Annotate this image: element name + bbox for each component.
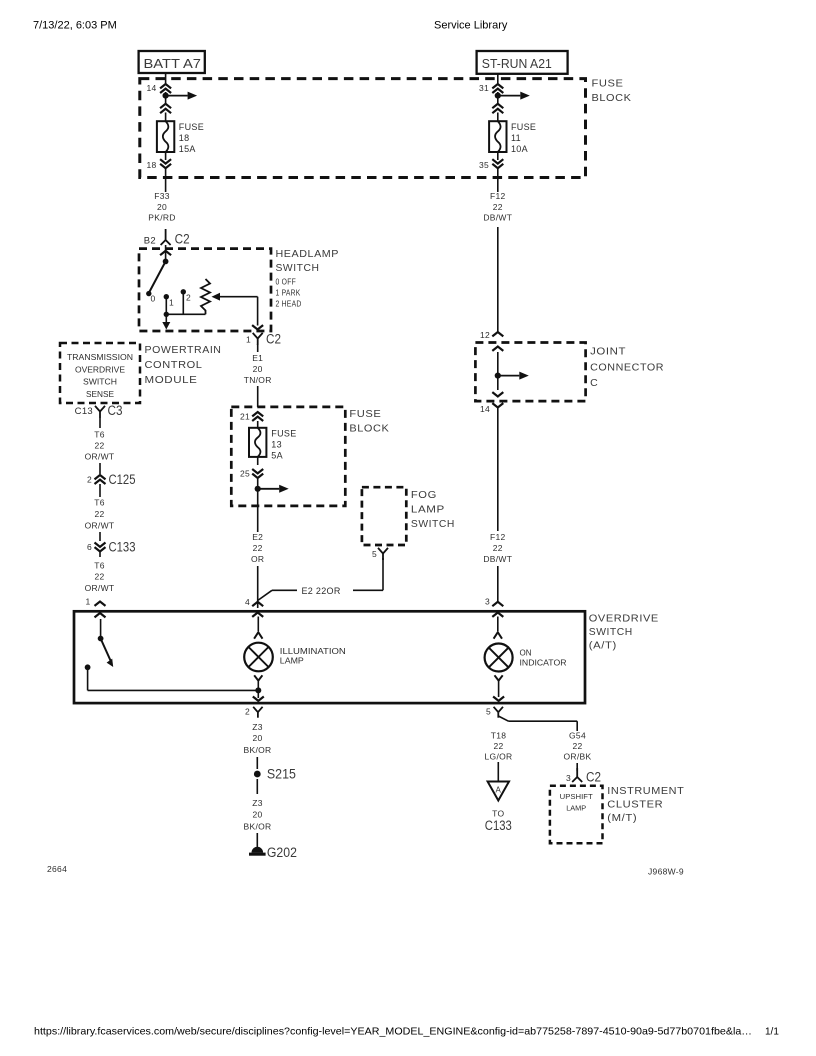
- svg-text:E2 22OR: E2 22OR: [302, 586, 341, 596]
- svg-text:FUSE: FUSE: [592, 78, 624, 90]
- svg-text:1: 1: [85, 597, 90, 607]
- svg-text:7/13/22, 6:03 PM: 7/13/22, 6:03 PM: [33, 20, 117, 32]
- svg-text:OR: OR: [251, 554, 264, 564]
- svg-text:MODULE: MODULE: [145, 374, 198, 386]
- svg-text:C125: C125: [109, 472, 136, 487]
- svg-text:1 PARK: 1 PARK: [276, 288, 301, 297]
- svg-text:OVERDRIVE: OVERDRIVE: [589, 613, 659, 625]
- svg-text:18: 18: [179, 133, 190, 143]
- svg-text:T6: T6: [94, 498, 105, 508]
- svg-text:FUSE: FUSE: [179, 122, 204, 132]
- svg-text:10A: 10A: [511, 144, 528, 154]
- svg-text:ON: ON: [520, 649, 532, 658]
- svg-text:J968W-9: J968W-9: [648, 867, 684, 877]
- svg-text:2: 2: [87, 475, 92, 485]
- svg-text:C2: C2: [175, 232, 190, 247]
- svg-text:G54: G54: [569, 730, 586, 740]
- svg-text:F12: F12: [490, 532, 506, 542]
- svg-text:22: 22: [94, 572, 104, 582]
- svg-text:C3: C3: [108, 403, 123, 418]
- svg-text:C: C: [590, 377, 598, 389]
- svg-text:31: 31: [479, 83, 489, 93]
- svg-text:0: 0: [150, 294, 155, 304]
- svg-text:T18: T18: [491, 730, 507, 740]
- svg-text:5: 5: [486, 707, 491, 717]
- svg-text:20: 20: [253, 364, 263, 374]
- svg-text:20: 20: [252, 810, 262, 820]
- svg-text:BK/OR: BK/OR: [244, 745, 272, 755]
- svg-text:BK/OR: BK/OR: [244, 822, 272, 832]
- svg-text:18: 18: [146, 160, 156, 170]
- svg-text:4: 4: [245, 597, 250, 607]
- svg-text:Service Library: Service Library: [434, 20, 508, 32]
- svg-text:2: 2: [245, 707, 250, 717]
- svg-text:22: 22: [94, 441, 104, 451]
- svg-text:ILLUMINATION: ILLUMINATION: [280, 647, 346, 656]
- svg-text:TO: TO: [492, 809, 504, 819]
- svg-text:INDICATOR: INDICATOR: [520, 658, 567, 667]
- svg-text:6: 6: [87, 542, 92, 552]
- svg-text:22: 22: [493, 202, 503, 212]
- svg-text:11: 11: [511, 133, 521, 143]
- svg-text:DB/WT: DB/WT: [483, 554, 512, 564]
- svg-text:POWERTRAIN: POWERTRAIN: [145, 344, 222, 356]
- svg-text:2: 2: [186, 293, 191, 303]
- svg-text:HEADLAMP: HEADLAMP: [276, 248, 340, 260]
- svg-text:DB/WT: DB/WT: [483, 213, 512, 223]
- svg-text:25: 25: [240, 469, 250, 479]
- svg-text:SENSE: SENSE: [86, 390, 114, 399]
- svg-text:22: 22: [94, 509, 104, 519]
- svg-text:3: 3: [485, 597, 490, 607]
- svg-text:FOG: FOG: [411, 489, 437, 501]
- svg-text:22: 22: [493, 543, 503, 553]
- svg-text:SWITCH: SWITCH: [589, 626, 633, 638]
- svg-text:5: 5: [372, 549, 377, 559]
- svg-text:F33: F33: [154, 191, 170, 201]
- svg-text:CONNECTOR: CONNECTOR: [590, 361, 664, 373]
- svg-text:FUSE: FUSE: [511, 122, 536, 132]
- svg-text:OVERDRIVE: OVERDRIVE: [75, 365, 125, 374]
- svg-text:T6: T6: [94, 430, 105, 440]
- svg-text:LAMP: LAMP: [566, 804, 586, 813]
- svg-text:35: 35: [479, 160, 489, 170]
- svg-text:SWITCH: SWITCH: [276, 262, 320, 274]
- svg-text:22: 22: [493, 741, 503, 751]
- svg-text:20: 20: [252, 733, 262, 743]
- svg-text:5A: 5A: [271, 451, 283, 461]
- svg-text:SWITCH: SWITCH: [411, 518, 455, 530]
- svg-text:13: 13: [271, 440, 282, 450]
- svg-text:1: 1: [246, 335, 251, 345]
- svg-text:12: 12: [480, 330, 490, 340]
- svg-text:0 OFF: 0 OFF: [276, 277, 297, 286]
- svg-text:S215: S215: [267, 767, 296, 782]
- svg-text:JOINT: JOINT: [590, 346, 626, 358]
- svg-text:BLOCK: BLOCK: [592, 92, 632, 104]
- svg-text:3: 3: [566, 773, 571, 783]
- svg-text:FUSE: FUSE: [349, 408, 381, 420]
- svg-text:CONTROL: CONTROL: [145, 359, 203, 371]
- svg-text:TN/OR: TN/OR: [244, 375, 272, 385]
- svg-text:14: 14: [480, 404, 490, 414]
- svg-text:22: 22: [572, 741, 582, 751]
- svg-text:OR/WT: OR/WT: [85, 452, 115, 462]
- svg-text:OR/WT: OR/WT: [85, 520, 115, 530]
- svg-text:C133: C133: [485, 818, 512, 833]
- svg-text:E2: E2: [252, 532, 263, 542]
- svg-text:OR/BK: OR/BK: [564, 751, 592, 761]
- svg-text:C2: C2: [586, 770, 601, 785]
- svg-text:1/1: 1/1: [765, 1027, 779, 1038]
- svg-text:Z3: Z3: [252, 798, 263, 808]
- svg-text:SWITCH: SWITCH: [83, 378, 117, 387]
- svg-text:T6: T6: [94, 560, 105, 570]
- svg-text:B2: B2: [144, 235, 156, 246]
- svg-text:LAMP: LAMP: [280, 657, 304, 666]
- svg-text:E1: E1: [252, 353, 263, 363]
- svg-text:CLUSTER: CLUSTER: [607, 799, 663, 811]
- svg-text:C2: C2: [266, 332, 281, 347]
- svg-text:UPSHIFT: UPSHIFT: [560, 792, 593, 801]
- svg-text:22: 22: [253, 543, 263, 553]
- svg-text:OR/WT: OR/WT: [85, 583, 115, 593]
- svg-text:15A: 15A: [179, 144, 196, 154]
- svg-text:C133: C133: [109, 540, 136, 555]
- svg-text:20: 20: [157, 202, 167, 212]
- svg-text:A: A: [495, 786, 501, 795]
- svg-text:PK/RD: PK/RD: [148, 213, 175, 223]
- svg-text:BLOCK: BLOCK: [349, 423, 389, 435]
- svg-text:TRANSMISSION: TRANSMISSION: [67, 353, 133, 362]
- svg-text:G202: G202: [267, 845, 297, 860]
- svg-text:FUSE: FUSE: [271, 429, 296, 439]
- svg-text:ST-RUN A21: ST-RUN A21: [482, 56, 552, 71]
- svg-text:https://library.fcaservices.co: https://library.fcaservices.com/web/secu…: [34, 1026, 752, 1038]
- svg-text:F12: F12: [490, 191, 506, 201]
- svg-text:2664: 2664: [47, 864, 67, 874]
- svg-text:Z3: Z3: [252, 722, 263, 732]
- svg-text:(A/T): (A/T): [589, 640, 617, 652]
- svg-text:1: 1: [169, 298, 174, 308]
- svg-text:21: 21: [240, 412, 250, 422]
- svg-text:14: 14: [146, 83, 156, 93]
- svg-text:LAMP: LAMP: [411, 504, 445, 516]
- svg-text:C13: C13: [75, 406, 93, 417]
- svg-text:INSTRUMENT: INSTRUMENT: [607, 785, 684, 797]
- svg-text:(M/T): (M/T): [607, 812, 637, 824]
- svg-text:LG/OR: LG/OR: [485, 751, 513, 761]
- svg-text:BATT A7: BATT A7: [144, 56, 202, 71]
- svg-text:2 HEAD: 2 HEAD: [276, 299, 302, 308]
